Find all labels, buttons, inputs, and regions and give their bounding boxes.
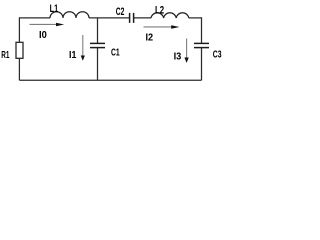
svg-text:I2: I2 bbox=[146, 32, 154, 43]
svg-text:C3: C3 bbox=[213, 50, 222, 61]
svg-text:C1: C1 bbox=[111, 48, 120, 59]
wire: left vertical below R1 bbox=[18, 58, 20, 80]
wire: C2 right plate to L2 bbox=[134, 17, 151, 19]
wire: top left corner to L1 bbox=[19, 17, 50, 19]
wire: C1 branch upper bbox=[97, 18, 99, 43]
inductor L2 bbox=[151, 13, 189, 18]
current arrow I1 bbox=[82, 35, 84, 56]
svg-text:R1: R1 bbox=[1, 50, 9, 61]
capacitor C3 bbox=[194, 42, 209, 44]
svg-text:L1: L1 bbox=[50, 3, 59, 15]
capacitor C1 bbox=[90, 42, 105, 44]
wire: L1 to C2 left plate (node A junction at x=97.5) bbox=[89, 17, 129, 19]
svg-text:L2: L2 bbox=[155, 4, 164, 16]
current arrow I3 bbox=[186, 39, 188, 59]
wire: bottom rail bbox=[19, 79, 201, 81]
svg-text:I3: I3 bbox=[174, 52, 182, 63]
svg-text:I0: I0 bbox=[39, 30, 47, 41]
wire: right vertical below C3 bbox=[201, 48, 203, 81]
svg-text:C2: C2 bbox=[116, 6, 125, 18]
svg-text:I1: I1 bbox=[69, 50, 77, 61]
wire: L2 to top right corner bbox=[189, 17, 202, 19]
current arrow I2 bbox=[144, 26, 173, 28]
current arrow I0 bbox=[30, 23, 58, 25]
wire: right vertical above C3 bbox=[201, 17, 203, 43]
wire: left vertical above R1 bbox=[18, 17, 20, 42]
wire: C1 branch lower bbox=[97, 48, 99, 81]
capacitor C2 bbox=[129, 13, 131, 23]
resistor R1 bbox=[16, 42, 23, 58]
inductor L1 bbox=[50, 12, 89, 18]
